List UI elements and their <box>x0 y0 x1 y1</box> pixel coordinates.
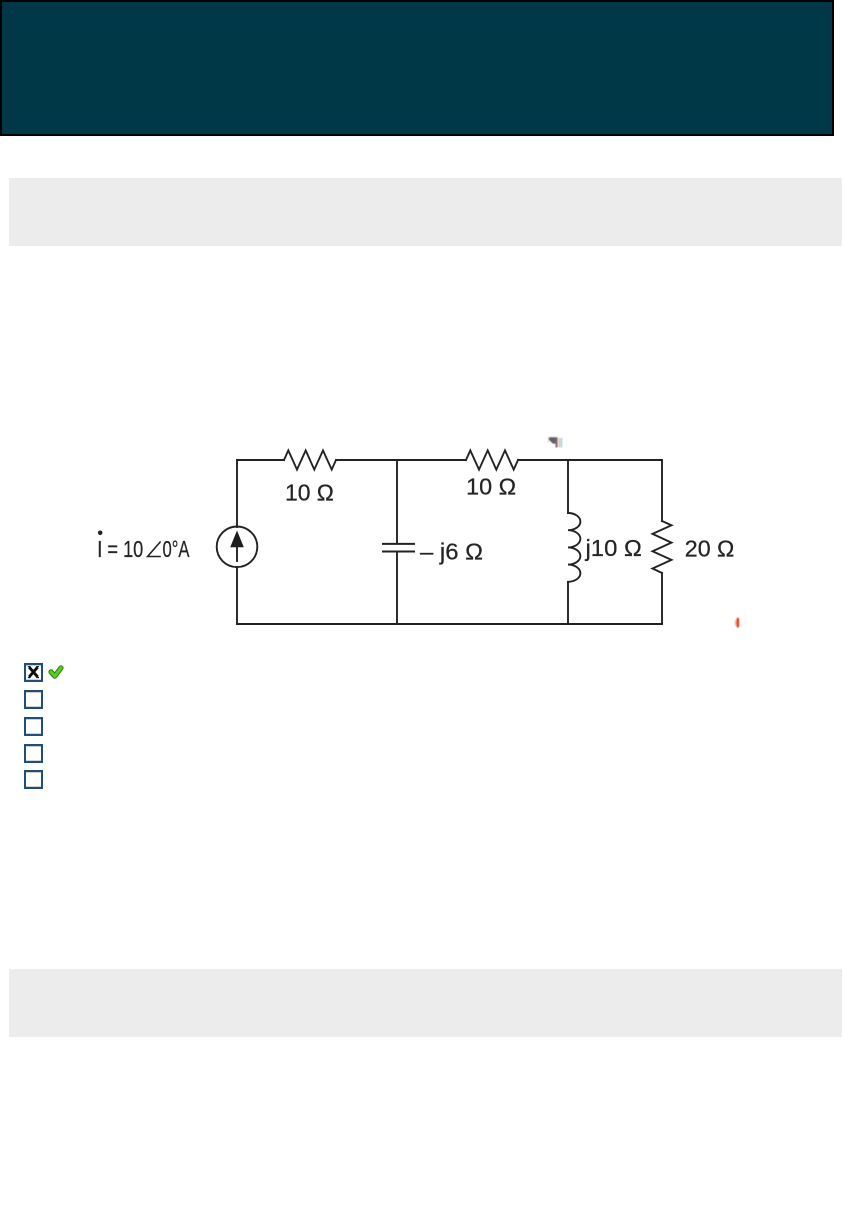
svg-text:20 Ω: 20 Ω <box>685 535 735 561</box>
svg-text:10 Ω: 10 Ω <box>285 479 334 505</box>
svg-text:j10 Ω: j10 Ω <box>584 535 641 561</box>
svg-text:I = 10: I = 10 <box>97 536 143 562</box>
svg-text:– j6 Ω: – j6 Ω <box>420 539 483 565</box>
svg-text:10 Ω: 10 Ω <box>466 473 516 499</box>
svg-text:0°A: 0°A <box>163 536 190 562</box>
